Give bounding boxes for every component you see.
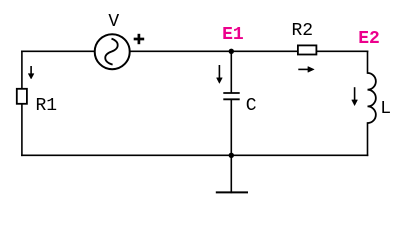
current arrow at R1 (28, 66, 34, 79)
resistor R2 (298, 45, 317, 54)
capacitor C (223, 93, 239, 99)
current arrow below R2 (298, 67, 314, 73)
svg-text:R2: R2 (292, 21, 314, 41)
svg-text:R1: R1 (36, 96, 58, 116)
wire right vertical upper (367, 51, 369, 73)
svg-text:L: L (380, 99, 391, 119)
node at bottom rail (229, 153, 234, 158)
wire top-left horizontal (22, 50, 94, 52)
svg-text:V: V (108, 12, 119, 32)
svg-text:C: C (246, 96, 257, 116)
polarity plus (134, 34, 145, 44)
wire left vertical lower (21, 105, 23, 156)
current arrow at L (352, 87, 358, 105)
resistor R1 (17, 89, 27, 104)
inductor L (368, 73, 376, 123)
svg-text:E2: E2 (358, 29, 380, 49)
wire ground stub (230, 155, 232, 192)
wire bottom rail (22, 154, 368, 156)
node E1 (229, 49, 234, 54)
wire left vertical upper (21, 51, 23, 88)
voltage source V (95, 34, 130, 69)
svg-text:E1: E1 (222, 25, 244, 45)
wire top-middle horizontal (131, 50, 298, 52)
current arrow above C (217, 65, 223, 83)
wire right vertical lower (367, 123, 369, 155)
wire top-right horizontal (317, 50, 368, 52)
wire middle vertical lower (230, 100, 232, 155)
ground (216, 191, 248, 193)
wire middle vertical upper (230, 51, 232, 92)
